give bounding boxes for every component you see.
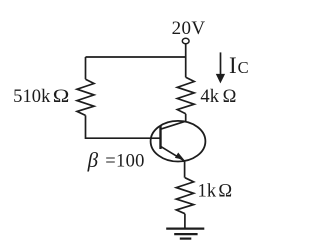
svg-text:Ω: Ω bbox=[53, 87, 70, 107]
svg-text:20V: 20V bbox=[172, 18, 206, 39]
svg-text:Ω: Ω bbox=[218, 182, 232, 202]
svg-text:4k: 4k bbox=[200, 87, 219, 107]
svg-text:I: I bbox=[229, 53, 237, 78]
svg-text:1k: 1k bbox=[198, 182, 217, 202]
svg-text:Ω: Ω bbox=[223, 87, 237, 107]
svg-text:=100: =100 bbox=[105, 151, 144, 171]
svg-text:510k: 510k bbox=[13, 87, 51, 107]
svg-text:C: C bbox=[238, 58, 249, 77]
svg-text:β: β bbox=[87, 148, 99, 172]
